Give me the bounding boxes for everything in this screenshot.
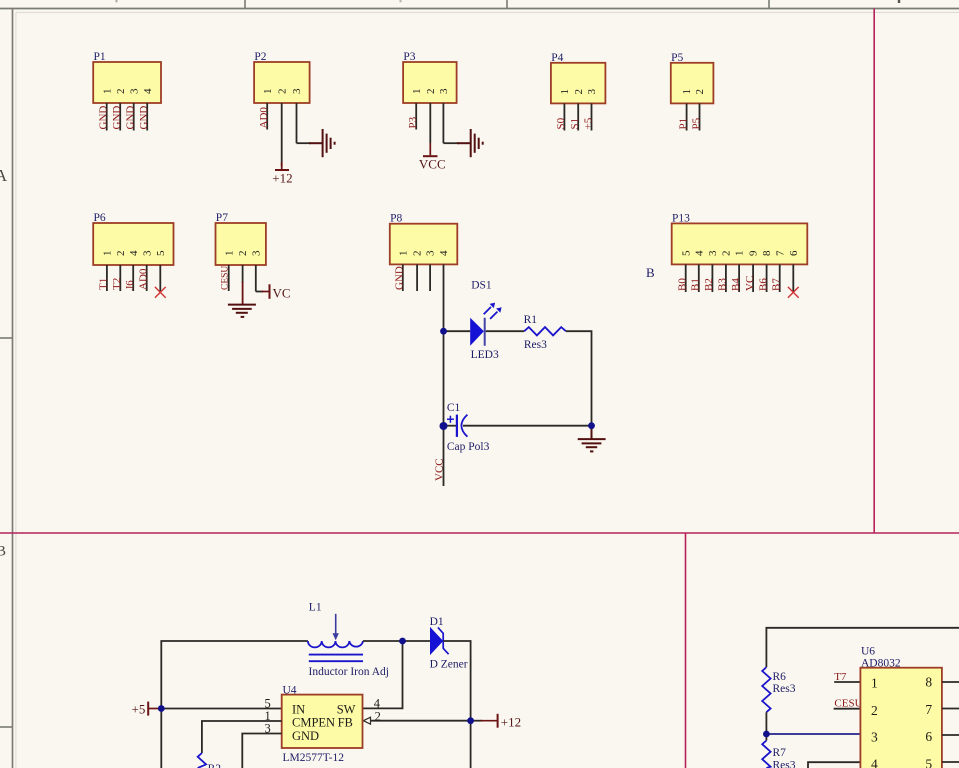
wire SW pin riser	[363, 641, 403, 708]
connector P3	[403, 51, 457, 103]
svg-text:1: 1	[102, 251, 114, 257]
svg-text:7: 7	[925, 702, 932, 717]
inductor L1	[308, 602, 389, 678]
wire left vertical branch	[161, 641, 308, 768]
svg-text:3: 3	[141, 250, 153, 256]
P4 pin 1 S0	[555, 89, 571, 131]
P4 pin 3 +5	[582, 89, 598, 131]
wire junction to U6 pin3	[766, 733, 860, 735]
U6 pin 5 number and wire	[925, 756, 959, 768]
P1 pin 3 GND	[125, 88, 141, 131]
wire +5 junction to U4 IN pin5	[158, 708, 282, 710]
P13 pin 1 B4	[730, 251, 746, 293]
wire FB node to U4 FB pin2	[370, 720, 470, 722]
svg-text:6: 6	[925, 729, 932, 744]
P3 pin 2 wire to VCC	[425, 89, 437, 144]
P13 pin 9 VC	[744, 250, 760, 292]
svg-text:T1: T1	[98, 278, 110, 290]
resistor R7 Res3	[762, 741, 796, 768]
wire R6 bottom through junction	[765, 712, 767, 740]
svg-text:+5: +5	[582, 117, 594, 129]
junction node at +5	[158, 705, 165, 712]
svg-text:D Zener: D Zener	[430, 659, 468, 671]
P13 pin 7 B7	[771, 250, 787, 292]
LED DS1	[470, 280, 501, 362]
svg-text:VCC: VCC	[434, 458, 446, 481]
U6 pin 6 number and wire	[925, 729, 959, 744]
P6 pin 3 AD0	[138, 250, 154, 291]
red section divider vertical top-right	[873, 9, 875, 534]
svg-text:9: 9	[748, 250, 760, 256]
P7 pin 3 wire to VC	[250, 250, 263, 292]
svg-text:C1: C1	[447, 402, 461, 414]
P1 pin 1 GND	[98, 89, 114, 131]
svg-text:GND: GND	[292, 729, 319, 743]
wire junction to LED anode	[444, 330, 471, 332]
U4 pin 3 number and wire	[242, 722, 281, 768]
svg-text:P7: P7	[216, 212, 228, 224]
svg-text:4: 4	[374, 697, 381, 711]
svg-text:1: 1	[871, 675, 878, 690]
svg-text:S1: S1	[569, 118, 581, 130]
svg-text:4: 4	[438, 250, 450, 256]
P7 pin 2 wire to ground	[237, 251, 249, 284]
connector P8	[390, 213, 458, 265]
svg-text:2: 2	[871, 703, 878, 718]
junction node R6/R7	[763, 731, 770, 738]
svg-text:2: 2	[276, 89, 288, 95]
svg-text:R1: R1	[524, 314, 538, 326]
no-ERC cross on P13 pin 6	[788, 287, 799, 298]
svg-text:1: 1	[681, 89, 693, 95]
P6 pin 4 J6	[124, 250, 140, 291]
P13 pin 3 B2	[703, 250, 719, 292]
svg-text:VCC: VCC	[419, 157, 446, 172]
net label T7 on U6 pin1 wire	[834, 671, 860, 683]
power port +12 right of FB node	[471, 714, 522, 730]
wire P8 pin4 vertical	[443, 264, 445, 486]
svg-text:SW: SW	[337, 703, 356, 717]
svg-text:5: 5	[155, 250, 167, 256]
svg-text:B1: B1	[690, 278, 702, 291]
U6 pin 7 number and wire	[925, 702, 959, 717]
svg-text:2: 2	[425, 89, 437, 95]
svg-text:+5: +5	[132, 702, 146, 717]
P13 pin 4 B1	[690, 250, 706, 292]
svg-text:S0: S0	[555, 117, 567, 129]
P1 pin 2 GND	[111, 89, 127, 131]
svg-text:R2: R2	[208, 763, 222, 768]
svg-text:8: 8	[761, 250, 773, 256]
input arrow on FB pin	[363, 717, 370, 724]
P13 pin 6 no connect	[788, 250, 800, 292]
P13 pin 2 B3	[717, 251, 733, 293]
svg-text:2: 2	[694, 89, 706, 95]
svg-text:1: 1	[223, 251, 235, 257]
wire LED cathode to R1	[486, 330, 525, 332]
svg-text:B7: B7	[771, 278, 783, 291]
connector P7	[216, 212, 266, 265]
svg-text:D1: D1	[430, 616, 444, 628]
wire R1 to right corner down	[566, 331, 592, 426]
svg-text:2: 2	[237, 251, 249, 257]
regulator U4 LM2577T-12	[282, 685, 363, 764]
svg-text:P5: P5	[690, 117, 702, 129]
diode D1 D Zener	[430, 616, 468, 671]
svg-text:2: 2	[573, 89, 585, 95]
svg-text:GND: GND	[111, 106, 123, 130]
ground symbol right of P3	[457, 129, 483, 157]
junction node at LED tap	[440, 328, 447, 335]
op-amp U6 AD8032	[860, 646, 942, 768]
svg-text:LM2577T-12: LM2577T-12	[283, 752, 345, 764]
wire D1 cathode to corner down to FB node	[443, 641, 470, 768]
P8 pin 4	[438, 250, 450, 256]
svg-text:+12: +12	[272, 171, 292, 186]
wire inductor to D1	[363, 640, 430, 642]
svg-text:1: 1	[262, 89, 274, 95]
U6 pin 8 number and wire	[925, 675, 959, 690]
svg-text:VC: VC	[744, 276, 756, 291]
svg-text:Res3: Res3	[773, 683, 796, 695]
svg-text:LED3: LED3	[471, 349, 499, 361]
U6 pin 4 wire	[808, 762, 860, 768]
red section divider horizontal	[0, 532, 959, 534]
ground symbol below right junction	[578, 428, 606, 451]
connector P5	[671, 52, 714, 104]
svg-text:Inductor Iron Adj: Inductor Iron Adj	[309, 666, 389, 678]
connector P2	[254, 51, 310, 103]
svg-text:Cap Pol3: Cap Pol3	[447, 441, 490, 453]
svg-text:U6: U6	[861, 646, 875, 658]
svg-text:3: 3	[128, 88, 140, 94]
capacitor C1 Cap Pol3	[447, 402, 490, 453]
svg-text:3: 3	[871, 730, 878, 745]
svg-text:3: 3	[586, 89, 598, 95]
resistor R1 Res3	[524, 314, 566, 351]
svg-text:B2: B2	[703, 278, 715, 291]
svg-text:5: 5	[680, 250, 692, 256]
wire junction to C1 left plate	[444, 425, 457, 427]
svg-text:4: 4	[871, 756, 878, 768]
svg-text:DS1: DS1	[471, 280, 492, 292]
svg-text:5: 5	[925, 756, 932, 768]
P2 pin 1 AD0	[258, 89, 274, 130]
svg-text:4: 4	[693, 250, 705, 256]
svg-text:AD8032: AD8032	[861, 657, 901, 669]
connector P6	[93, 212, 173, 265]
svg-text:B: B	[646, 265, 655, 280]
svg-text:T2: T2	[111, 278, 123, 290]
svg-text:P13: P13	[672, 212, 690, 224]
svg-text:1: 1	[397, 251, 409, 257]
P5 pin 2 net P5	[690, 89, 706, 131]
svg-text:1: 1	[101, 89, 113, 95]
svg-text:P6: P6	[94, 212, 106, 224]
svg-text:P1: P1	[677, 118, 689, 130]
svg-text:7: 7	[774, 250, 786, 256]
svg-text:Res3: Res3	[524, 339, 547, 351]
junction node FB/+12	[467, 717, 474, 724]
svg-text:R6: R6	[773, 671, 787, 683]
svg-text:P3: P3	[407, 116, 419, 128]
U4 pin 1 number and wire	[202, 709, 282, 753]
svg-text:FB: FB	[338, 716, 353, 730]
P6 pin 2 T2	[111, 251, 127, 292]
svg-text:2: 2	[375, 709, 381, 723]
svg-text:U4: U4	[283, 685, 297, 697]
P13 pin 5 B0	[677, 250, 693, 292]
P2 pin 3 wire to ground	[291, 88, 311, 143]
svg-text:VC: VC	[273, 286, 291, 301]
svg-text:1: 1	[411, 89, 423, 95]
svg-text:3: 3	[438, 88, 450, 94]
svg-text:B0: B0	[677, 278, 689, 291]
connector P4	[551, 52, 606, 104]
svg-text:8: 8	[925, 675, 932, 690]
net label CESU on U6 pin2 wire	[834, 698, 863, 710]
P5 pin 1 net P1	[677, 89, 693, 131]
connector P13	[672, 212, 808, 264]
svg-text:GND: GND	[394, 266, 406, 290]
svg-text:3: 3	[707, 250, 719, 256]
svg-text:R7: R7	[773, 747, 787, 759]
svg-text:4: 4	[128, 250, 140, 256]
svg-text:P2: P2	[254, 51, 266, 63]
svg-text:B6: B6	[757, 278, 769, 291]
svg-text:1: 1	[559, 89, 571, 95]
svg-text:P4: P4	[551, 52, 563, 64]
svg-text:AD0: AD0	[258, 107, 270, 129]
P6 pin 5 no connect	[155, 250, 167, 291]
junction node at C1 left	[440, 422, 448, 430]
svg-text:P1: P1	[94, 51, 106, 63]
svg-text:P3: P3	[403, 51, 415, 63]
svg-text:AD0: AD0	[138, 268, 150, 290]
resistor R6 Res3	[762, 667, 796, 712]
svg-text:A: A	[0, 166, 8, 185]
svg-text:GND: GND	[98, 106, 110, 130]
svg-text:P5: P5	[671, 52, 683, 64]
no-ERC cross on P6 pin 5	[155, 287, 166, 298]
svg-text:J6: J6	[124, 280, 136, 290]
P4 pin 2 S1	[569, 89, 585, 131]
svg-text:B: B	[0, 544, 6, 560]
svg-text:GND: GND	[138, 106, 150, 130]
junction node right of C1 row	[588, 422, 595, 429]
svg-text:B4: B4	[730, 278, 742, 291]
junction node above SW pin	[399, 638, 406, 645]
svg-text:4: 4	[142, 88, 154, 94]
ground symbol below P7	[228, 282, 256, 317]
red section divider vertical bottom	[685, 533, 687, 768]
resistor R2 partial	[198, 753, 222, 768]
P1 pin 4 GND	[138, 88, 154, 131]
P3 pin 1 net P3	[407, 89, 423, 130]
P13 pin 8 B6	[757, 250, 773, 292]
svg-text:+12: +12	[501, 715, 521, 730]
power port VCC below P3	[419, 143, 446, 172]
power port +5	[132, 702, 159, 717]
svg-text:L1: L1	[309, 602, 322, 614]
svg-text:Res3: Res3	[773, 759, 796, 768]
svg-text:P8: P8	[390, 213, 402, 225]
wire bottom right to capacitor	[463, 425, 592, 427]
ground symbol right of P2	[309, 129, 335, 157]
P3 pin 3 wire to ground	[438, 88, 459, 143]
power port +12 below P2	[272, 162, 292, 186]
svg-text:2: 2	[115, 251, 127, 257]
connector P1	[93, 51, 161, 103]
svg-text:3: 3	[291, 88, 303, 94]
wire top of bottom-right section	[766, 628, 959, 667]
P8 pin 3	[425, 250, 437, 291]
svg-text:3: 3	[250, 250, 262, 256]
P7 pin 1 CESU	[221, 251, 236, 292]
svg-text:2: 2	[115, 89, 127, 95]
svg-text:1: 1	[734, 251, 746, 257]
svg-text:GND: GND	[125, 106, 137, 130]
P2 pin 2 wire to +12	[276, 89, 288, 167]
P8 pin 1 GND	[394, 251, 410, 292]
svg-text:CMPEN: CMPEN	[292, 716, 335, 730]
svg-text:B3: B3	[717, 278, 729, 291]
svg-text:IN: IN	[292, 703, 305, 717]
P6 pin 1 T1	[98, 251, 114, 292]
P8 pin 2	[412, 251, 424, 292]
svg-text:2: 2	[412, 251, 424, 257]
svg-text:CESU: CESU	[221, 266, 231, 290]
svg-text:3: 3	[425, 250, 437, 256]
svg-text:6: 6	[788, 250, 800, 256]
power port VC right of P7	[262, 284, 291, 300]
svg-text:2: 2	[721, 251, 733, 257]
